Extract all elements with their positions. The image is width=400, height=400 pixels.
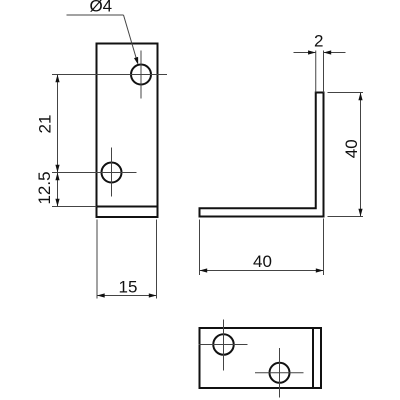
hole H4 horizontal centerline xyxy=(255,372,304,374)
dimension 2 arrow pointing right xyxy=(308,50,316,54)
dimension 2 right line xyxy=(324,52,346,54)
dimension 21 arrow down xyxy=(55,165,59,173)
svg-text:12.5: 12.5 xyxy=(35,171,54,204)
front view bend line xyxy=(97,206,158,208)
hole H1 (upper) xyxy=(131,65,151,85)
dimension 12.5 arrow down xyxy=(55,199,59,207)
hole H2 horizontal centerline / extension xyxy=(52,172,137,174)
dimension 15 left extension xyxy=(96,220,98,299)
svg-text:2: 2 xyxy=(314,31,323,50)
dimension 40 horizontal arrow left xyxy=(200,268,208,272)
hole H4 (bottom view right) xyxy=(270,363,290,383)
svg-text:Ø4: Ø4 xyxy=(89,0,112,16)
dimension 2 right extension xyxy=(323,51,325,93)
hole H2 vertical centerline xyxy=(111,148,113,197)
side view L profile xyxy=(200,93,324,217)
leader shoulder for diameter callout xyxy=(67,14,124,16)
hole H2 (lower) xyxy=(102,163,122,183)
hole H1 horizontal centerline / extension xyxy=(52,74,167,76)
dimension 12.5 arrow up xyxy=(55,173,59,181)
svg-text:15: 15 xyxy=(119,278,138,297)
hole H1 vertical centerline xyxy=(140,51,142,99)
dimension 40 vertical line xyxy=(360,93,362,217)
dimension 15 arrow left xyxy=(97,293,105,297)
dimension 21 arrow up xyxy=(55,75,59,83)
leader arrow xyxy=(134,57,138,65)
dimension 15 line xyxy=(97,295,157,297)
bottom view bend line xyxy=(312,328,314,388)
dimension 40 vertical top extension xyxy=(328,92,364,94)
dimension 2 left extension xyxy=(315,51,317,93)
svg-text:40: 40 xyxy=(253,252,272,271)
dimension 40 vertical arrow up xyxy=(358,93,362,101)
bottom view outline xyxy=(200,328,322,388)
dimension 2 arrow pointing left xyxy=(324,50,332,54)
hole H3 horizontal centerline xyxy=(199,344,248,346)
svg-text:40: 40 xyxy=(342,139,361,158)
front view outline xyxy=(97,44,158,218)
hole H4 vertical centerline xyxy=(279,348,281,398)
dimension 40 vertical arrow down xyxy=(358,209,362,217)
bend line extension xyxy=(52,206,97,208)
leader diagonal xyxy=(124,15,137,60)
dimension 2 left line xyxy=(294,52,316,54)
dimension 15 arrow right xyxy=(149,293,157,297)
dimension 40 horizontal left extension xyxy=(199,220,201,276)
dimension 40 horizontal right extension xyxy=(323,219,325,276)
dimension 40 horizontal line xyxy=(200,270,324,272)
hole H3 (bottom view left) xyxy=(213,334,234,355)
dimension 40 vertical bottom extension xyxy=(328,216,364,218)
dimension 21 line xyxy=(57,75,59,173)
dimension 12.5 line xyxy=(57,173,59,207)
hole H3 vertical centerline xyxy=(223,320,225,371)
dimension 15 right extension xyxy=(156,220,158,299)
svg-text:21: 21 xyxy=(36,115,55,134)
dimension 40 horizontal arrow right xyxy=(316,268,324,272)
